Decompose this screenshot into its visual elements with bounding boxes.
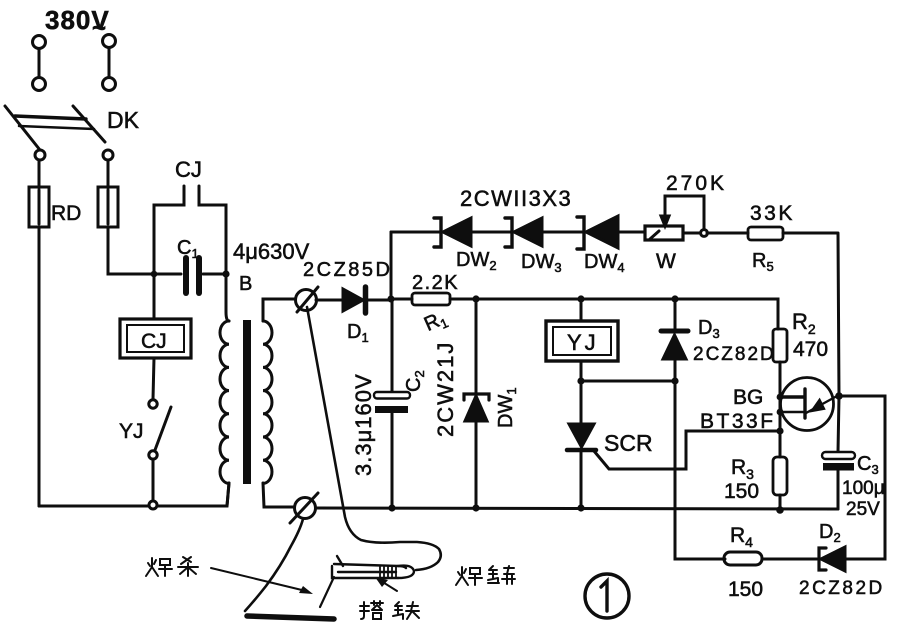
resistor R4 [724, 552, 762, 565]
svg-text:25V: 25V [846, 499, 880, 520]
svg-text:33K: 33K [750, 202, 795, 225]
label datie (earth clamp) [360, 601, 419, 619]
resistor R2 [773, 329, 787, 397]
svg-text:BG: BG [733, 386, 763, 409]
node B2 right [835, 392, 843, 400]
svg-text:RD: RD [51, 202, 81, 225]
wire D3 node down to R4 loop [675, 381, 725, 559]
wiper 270K link [661, 196, 707, 236]
coil CJ box [120, 319, 191, 358]
wire bottom rail [316, 508, 838, 509]
resistor R3 [773, 457, 787, 510]
workpiece bar [247, 616, 334, 619]
transformer B primary winding [220, 321, 229, 483]
node DW1 bottom [472, 504, 479, 511]
transistor BG bar [803, 389, 806, 418]
zener DW1 branch wire [475, 299, 478, 508]
diode D1 [343, 287, 391, 313]
svg-text:4μ630V: 4μ630V [233, 239, 310, 264]
capacitor C2 [374, 392, 410, 413]
svg-text:3.3μ160V: 3.3μ160V [351, 373, 376, 476]
wire node up to zener rail [390, 232, 393, 299]
label 380V [45, 5, 110, 42]
terminal jack bottom [290, 493, 318, 523]
wire jack top to D1 [316, 299, 343, 302]
fuse RD right [98, 187, 118, 227]
contact CJ [154, 186, 226, 274]
node YJ bottom [577, 377, 584, 384]
potentiometer W [645, 226, 700, 240]
wire CJ coil to YJ contact [153, 358, 154, 399]
label hanqian (welding clamp) [456, 566, 515, 585]
node DW1 top [472, 295, 479, 302]
electrode holder body [332, 556, 414, 578]
terminal jack top [296, 287, 319, 312]
svg-text:270K: 270K [666, 172, 727, 195]
arrow hantiao pointer [211, 568, 313, 594]
svg-text:B: B [239, 273, 252, 295]
electrode stick [320, 577, 334, 607]
wire B2 to C3 [838, 396, 839, 452]
wire left phase down [38, 227, 41, 506]
node right phase dot [222, 270, 229, 277]
node D1 R1 C2 [387, 295, 394, 302]
switch DK [5, 106, 113, 160]
node gate join [776, 427, 783, 434]
svg-text:2CW21J: 2CW21J [433, 341, 458, 437]
transformer B secondary winding [263, 321, 272, 483]
wire ground cable [245, 519, 303, 611]
svg-text:CJ: CJ [141, 330, 167, 353]
wire YJ node to D3 node [581, 380, 675, 383]
wire primary bottom [227, 483, 229, 506]
figure number 1 [585, 574, 629, 618]
terminal pin L1 [33, 36, 46, 91]
wire zener rail left [391, 231, 440, 234]
node D3 bottom [671, 377, 678, 384]
transistor BG circle [781, 378, 834, 431]
wire mid rail [476, 299, 778, 329]
thyristor SCR [567, 424, 779, 508]
zener DW2 [434, 218, 511, 247]
diode D3 [661, 331, 688, 381]
svg-text:100μ: 100μ [842, 478, 885, 499]
wire R4 to D2 [762, 558, 817, 561]
diode D2 [819, 547, 845, 571]
zener DW4 [577, 216, 645, 249]
node emitter [777, 394, 784, 401]
wire YJ to SCR [580, 361, 583, 424]
wire right loop [839, 396, 885, 559]
svg-text:2CZ85D: 2CZ85D [303, 259, 392, 281]
transistor BG emitter leads [779, 397, 804, 412]
arrow datie pointer [375, 577, 397, 591]
transistor BG arrow [806, 396, 837, 413]
node emitter2 [777, 409, 784, 416]
svg-text:470: 470 [793, 338, 828, 361]
label hantiao (welding rod) [146, 557, 198, 576]
svg-text:DK: DK [107, 107, 140, 133]
capacitor C2 branch wire [391, 299, 394, 508]
zener DW3 [505, 218, 583, 247]
resistor R1 [391, 293, 476, 305]
svg-text:2CWII3X3: 2CWII3X3 [460, 186, 572, 211]
wire right edge down [838, 233, 839, 396]
wire C1 node down to CJ coil [153, 274, 156, 319]
svg-text:2CZ82D: 2CZ82D [693, 344, 776, 365]
contact YJ [149, 400, 171, 509]
svg-text:YJ: YJ [567, 330, 599, 355]
wire C1 node to primary top [226, 274, 229, 321]
capacitor C3 [822, 452, 855, 509]
svg-text:W: W [656, 250, 676, 273]
node SCR bottom [577, 504, 584, 511]
capacitor C1 [154, 258, 226, 293]
wire DK to fuses [39, 160, 108, 188]
svg-text:BT33F: BT33F [700, 410, 776, 433]
svg-text:YJ: YJ [119, 420, 144, 443]
terminal pin L2 [103, 35, 116, 91]
resistor R5 [707, 227, 837, 240]
diode D3 branch wire [674, 299, 677, 329]
wire electrode cable [307, 307, 441, 570]
node left contact dot [151, 271, 158, 278]
wire bottom-left rail [39, 483, 229, 506]
zener DW1 [464, 394, 489, 421]
relay YJ branch wire [580, 299, 583, 321]
svg-text:CJ: CJ [175, 157, 202, 182]
fuse RD left [29, 187, 49, 227]
svg-text:SCR: SCR [604, 430, 653, 456]
node C2 bottom [388, 504, 395, 511]
node R3 bottom [776, 506, 784, 514]
svg-text:150: 150 [724, 480, 759, 503]
svg-text:2.2K: 2.2K [412, 272, 459, 294]
node YJ top [577, 295, 584, 302]
svg-text:150: 150 [728, 578, 763, 601]
node D3 top [671, 295, 678, 302]
wire secondary bottom [263, 483, 293, 507]
svg-text:2CZ82D: 2CZ82D [799, 578, 885, 599]
wire secondary top [263, 299, 295, 321]
wire right phase to C1 node [108, 227, 154, 274]
wire R2 bottom to R3 [779, 397, 782, 457]
relay YJ box [546, 321, 618, 361]
transformer B core [243, 320, 251, 484]
